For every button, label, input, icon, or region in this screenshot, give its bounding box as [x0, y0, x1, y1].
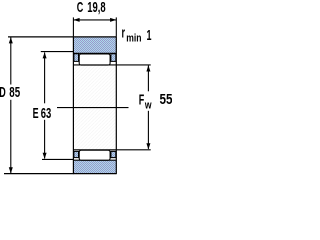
Fw dimension line upper segment — [147, 66, 149, 92]
bore top line with Fw extension — [73, 64, 150, 66]
svg-text:min: min — [126, 33, 141, 45]
C arrow left — [73, 18, 79, 22]
top flange left — [74, 54, 79, 62]
bearing left edge — [72, 36, 74, 174]
bottom roller — [79, 150, 110, 160]
axis center line — [57, 107, 129, 109]
bore bottom line with Fw extension — [73, 149, 150, 151]
svg-text:1: 1 — [147, 27, 152, 44]
svg-text:63: 63 — [41, 105, 52, 122]
top raceway line — [73, 52, 116, 54]
top roller — [79, 54, 110, 65]
svg-text:D: D — [0, 84, 6, 101]
Fw arrow down — [146, 143, 150, 149]
E arrow up — [43, 52, 47, 58]
outer ring bottom section — [73, 160, 116, 173]
bottom flange right — [111, 151, 116, 157]
outer ring top section — [73, 37, 116, 53]
C dimension line — [73, 19, 116, 21]
C extension line left — [72, 17, 74, 36]
svg-text:E: E — [33, 105, 39, 122]
bottom outer surface line with D extension — [4, 173, 116, 175]
top outer surface line with D extension — [8, 36, 116, 38]
E arrow down — [43, 153, 47, 159]
bearing right edge — [115, 36, 117, 174]
E dimension line upper segment — [44, 52, 46, 103]
D dimension line lower segment — [10, 100, 12, 173]
Fw dimension line lower segment — [147, 111, 149, 149]
E bottom extension line — [42, 158, 73, 160]
svg-text:19,8: 19,8 — [87, 0, 105, 16]
top flange right — [111, 54, 116, 62]
bore interior hatch — [73, 65, 116, 150]
C extension line right — [115, 17, 117, 36]
svg-text:r: r — [122, 24, 126, 41]
Fw arrow up — [146, 65, 150, 71]
bottom flange left — [74, 151, 79, 157]
E top extension line — [41, 51, 74, 53]
svg-text:85: 85 — [9, 84, 20, 101]
svg-text:C: C — [77, 0, 84, 16]
D dimension line upper segment — [10, 37, 12, 84]
D arrow down — [9, 167, 13, 173]
svg-text:F: F — [139, 91, 145, 108]
svg-text:55: 55 — [160, 91, 173, 108]
D arrow up — [9, 37, 13, 43]
svg-text:w: w — [144, 99, 152, 111]
bottom raceway line — [73, 159, 116, 161]
C arrow right — [110, 18, 116, 22]
E dimension line lower segment — [44, 120, 46, 159]
